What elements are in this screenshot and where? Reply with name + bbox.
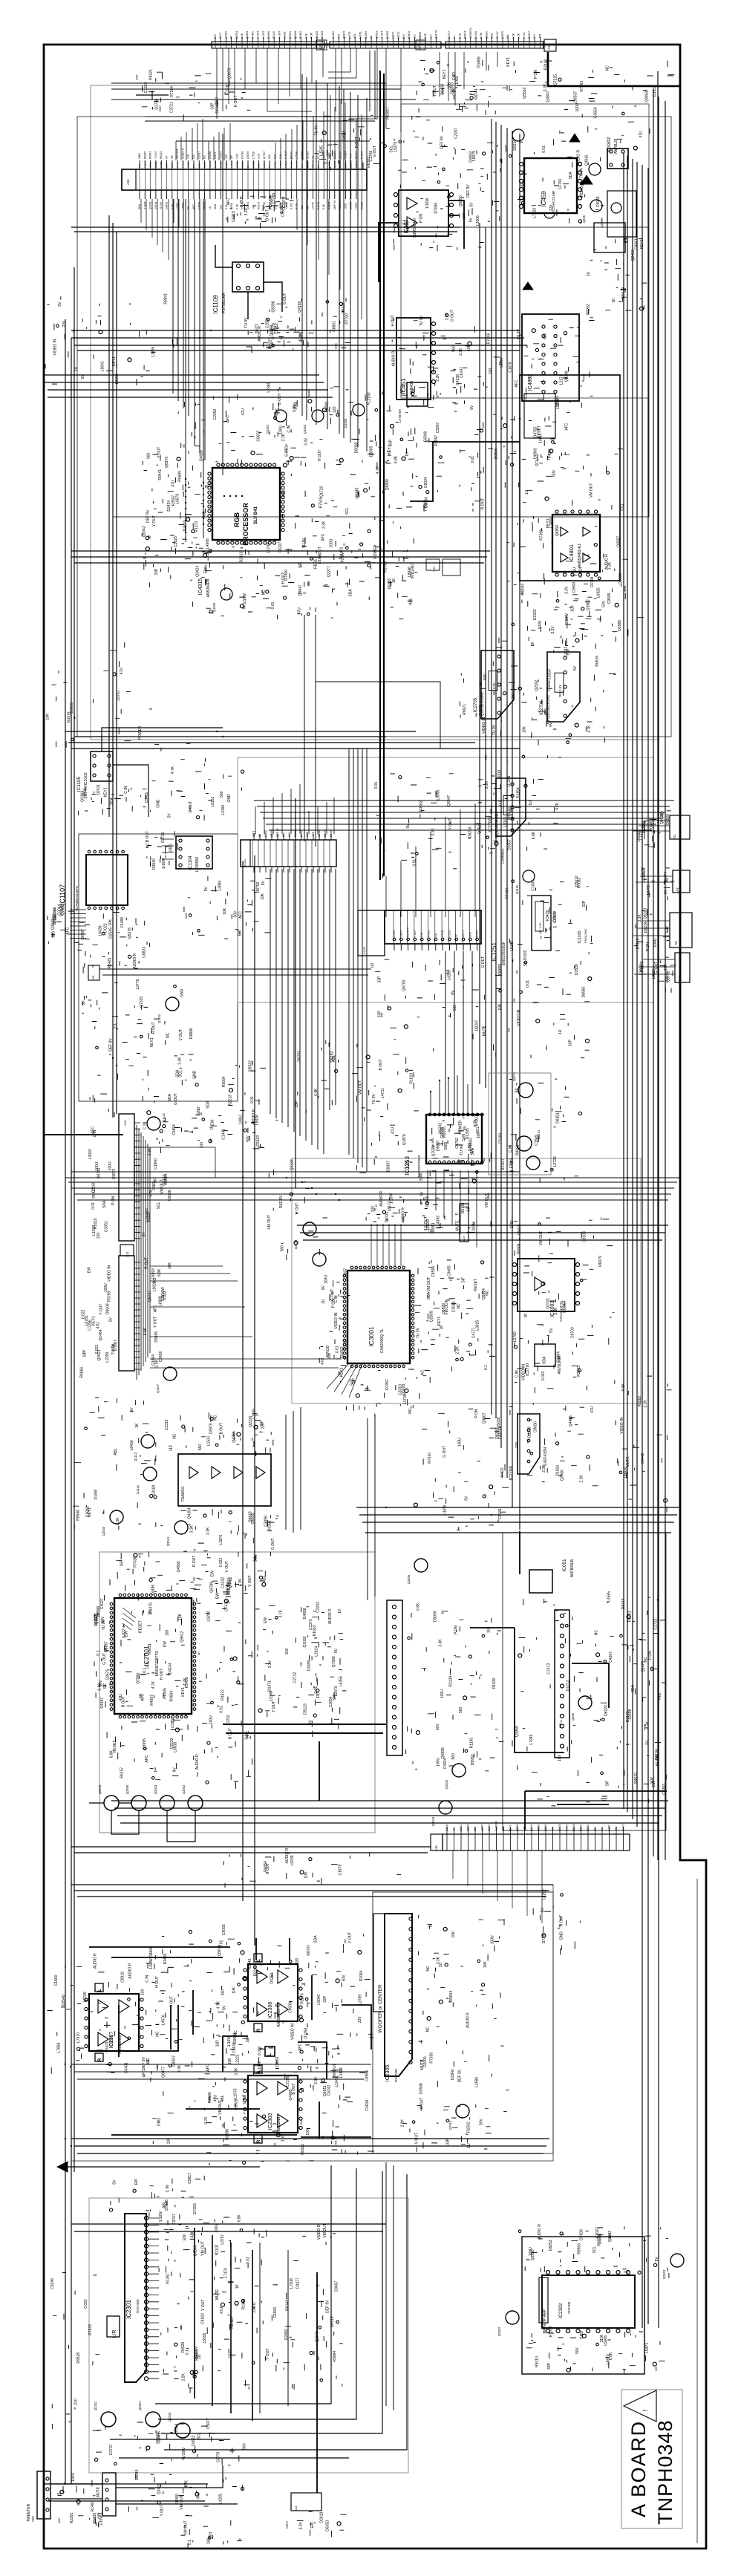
svg-text:0.01: 0.01: [219, 1706, 223, 1713]
svg-text:1U: 1U: [558, 1029, 563, 1034]
IC2307 pins right: [140, 1998, 143, 2001]
svg-text:SIF: SIF: [467, 1206, 471, 1212]
svg-text:0.01: 0.01: [374, 781, 379, 789]
svg-text:D7328: D7328: [165, 2200, 169, 2211]
svg-text:L7858: L7858: [57, 2042, 62, 2052]
svg-text:D5127: D5127: [342, 302, 346, 313]
svg-text:D3525: D3525: [393, 930, 396, 937]
IC1253 pins bottom: [428, 1161, 431, 1164]
svg-text:47U: 47U: [214, 2095, 218, 2102]
svg-text:A3: A3: [319, 45, 322, 50]
IC1105 body: [91, 751, 113, 781]
svg-text:Y OUT: Y OUT: [272, 1701, 276, 1712]
svg-text:KEY1: KEY1: [437, 1317, 442, 1326]
svg-text:D7066: D7066: [434, 203, 439, 214]
Q1107 transistor: [163, 1367, 177, 1380]
svg-text:2.2K: 2.2K: [258, 153, 261, 159]
svg-text:D3490: D3490: [307, 1660, 311, 1671]
components below IC2302: [526, 2332, 665, 2375]
components below IC1104 and A1101: [184, 876, 271, 939]
svg-text:C3765: C3765: [272, 193, 276, 204]
small cluster right of woofer section top: [533, 1905, 580, 1955]
components right of RGB processor: [283, 457, 414, 589]
svg-text:Q7225: Q7225: [553, 74, 558, 85]
svg-text:Q2302: Q2302: [497, 2326, 501, 2336]
svg-text:47U: 47U: [391, 1127, 395, 1135]
IC2001 pins top: [119, 1594, 122, 1597]
svg-text:H OUT: H OUT: [266, 1863, 270, 1875]
wire bus: tuner to IC1253 verticals: [445, 951, 472, 1115]
svg-text:NC: NC: [594, 1827, 597, 1831]
dense column right of micom x418-462: [310, 1611, 347, 1737]
svg-text:D5748: D5748: [461, 1202, 466, 1213]
svg-text:IC4802: IC4802: [528, 374, 533, 391]
svg-text:L4966: L4966: [206, 538, 210, 549]
svg-text:C7296: C7296: [286, 2076, 290, 2087]
wire bus: horizontals from A1101 to right side: [254, 800, 674, 830]
svg-text:D3940: D3940: [152, 858, 157, 870]
svg-text:EW: EW: [204, 567, 209, 573]
svg-text:L: L: [98, 1989, 102, 1992]
connector A11 body: [119, 1256, 134, 1371]
svg-text:0.022: 0.022: [258, 2046, 262, 2055]
svg-text:VIDEO IN: VIDEO IN: [291, 2024, 296, 2040]
svg-text:PROCESSOR: PROCESSOR: [242, 503, 249, 546]
svg-text:D1528: D1528: [241, 151, 244, 159]
svg-text:H OUT: H OUT: [155, 1976, 160, 1988]
svg-text:SDA: SDA: [542, 1356, 546, 1364]
wire bus: horizontals y1300 under A4: [99, 969, 371, 975]
svg-text:TU 9V: TU 9V: [420, 315, 424, 326]
svg-text:R7515: R7515: [319, 497, 324, 508]
svg-text:D1236: D1236: [474, 31, 477, 39]
svg-text:VM OUT: VM OUT: [333, 2064, 337, 2078]
svg-text:R8492: R8492: [299, 31, 302, 39]
components below IC2001: [107, 1719, 252, 1789]
svg-text:D5882: D5882: [467, 1824, 470, 1831]
svg-text:50V: 50V: [234, 910, 238, 918]
svg-text:L4393: L4393: [437, 1216, 441, 1226]
svg-text:L3506: L3506: [476, 215, 480, 226]
svg-text:L6838: L6838: [174, 1742, 178, 1752]
svg-text:D7393: D7393: [193, 2203, 198, 2214]
svg-text:R9338: R9338: [386, 31, 389, 39]
Q2308 switch block body: [607, 191, 636, 237]
svg-text:SIF: SIF: [246, 2037, 250, 2043]
svg-text:2.2K: 2.2K: [182, 2373, 186, 2381]
svg-text:R3805: R3805: [408, 31, 411, 39]
svg-text:Q1662: Q1662: [340, 1346, 345, 1357]
wire bus: mid band y1900-2000 verticals: [286, 1407, 375, 1600]
svg-text:L3050: L3050: [548, 669, 552, 679]
svg-text:R1582: R1582: [538, 1824, 541, 1831]
svg-text:C3140: C3140: [441, 930, 444, 937]
svg-text:P ON: P ON: [420, 214, 424, 224]
svg-text:3.3K: 3.3K: [543, 83, 548, 91]
svg-text:D2411: D2411: [97, 784, 101, 795]
svg-text:1K: 1K: [440, 1325, 444, 1330]
svg-text:33P: 33P: [210, 102, 215, 110]
svg-text:Q8999: Q8999: [618, 573, 623, 584]
svg-text:3.3K: 3.3K: [344, 163, 347, 168]
svg-text:560: 560: [220, 791, 224, 798]
Q3132b transistor: [526, 1156, 540, 1170]
svg-text:P ON: P ON: [474, 1409, 479, 1418]
svg-text:100U: 100U: [209, 1715, 214, 1724]
svg-text:EW: EW: [210, 1571, 215, 1576]
svg-text:Q1982: Q1982: [608, 2231, 613, 2242]
svg-text:C1077: C1077: [206, 2418, 211, 2429]
svg-text:10K: 10K: [434, 932, 437, 937]
svg-text:GND: GND: [491, 33, 494, 39]
components above IC2001: [105, 1551, 266, 1600]
svg-text:MC 3.3V: MC 3.3V: [538, 922, 542, 934]
svg-text:TU 9V: TU 9V: [492, 724, 497, 735]
svg-text:D4254: D4254: [270, 1973, 275, 1984]
svg-text:D8353: D8353: [326, 2520, 330, 2531]
components in sound IF section: [512, 1597, 666, 1806]
svg-text:AFC: AFC: [226, 198, 231, 205]
svg-text:3.3V: 3.3V: [304, 437, 309, 446]
svg-text:560: 560: [474, 1827, 477, 1831]
svg-text:R6663: R6663: [149, 151, 152, 159]
svg-text:V OUT: V OUT: [344, 150, 347, 159]
components left of RGB processor: [142, 446, 212, 587]
svg-text:C9731: C9731: [161, 832, 166, 843]
svg-text:5V: 5V: [108, 1317, 113, 1322]
svg-text:C2157: C2157: [454, 128, 459, 139]
svg-text:Q8398: Q8398: [272, 301, 276, 312]
svg-text:B OUT: B OUT: [146, 831, 150, 842]
svg-text:R8081: R8081: [515, 1144, 520, 1155]
svg-text:R7490: R7490: [251, 31, 254, 39]
svg-text:V OUT: V OUT: [225, 1561, 229, 1572]
svg-text:C8575: C8575: [106, 1669, 111, 1680]
svg-text:R6540: R6540: [426, 1219, 431, 1230]
components around IC4802: [486, 319, 595, 420]
svg-text:L/R: L/R: [112, 2330, 117, 2338]
svg-text:Y OUT: Y OUT: [433, 85, 437, 97]
svg-text:C4303: C4303: [662, 1784, 667, 1795]
svg-text:0.01: 0.01: [247, 2257, 251, 2264]
svg-text:5V: 5V: [469, 218, 473, 223]
svg-text:9V: 9V: [470, 405, 474, 410]
svg-text:C9395: C9395: [448, 930, 451, 937]
svg-text:Q6485: Q6485: [209, 151, 212, 159]
svg-text:C7027: C7027: [220, 161, 223, 168]
svg-text:10K: 10K: [223, 907, 227, 915]
svg-text:C1723: C1723: [653, 1619, 658, 1630]
svg-text:1K: 1K: [153, 1178, 157, 1183]
svg-text:Q1107: Q1107: [156, 1383, 160, 1393]
svg-text:Q1880: Q1880: [333, 161, 336, 168]
svg-text:L3003: L3003: [88, 1149, 93, 1159]
svg-text:D9375: D9375: [148, 1602, 153, 1614]
svg-text:C9093: C9093: [222, 1924, 226, 1935]
svg-text:R4519: R4519: [68, 711, 72, 723]
svg-text:L3757: L3757: [221, 2234, 225, 2244]
wire junction dots scattered on buses: [242, 1177, 244, 1178]
svg-text:3.3K: 3.3K: [190, 1525, 195, 1533]
svg-text:SIF: SIF: [230, 155, 233, 159]
Q3132 transistors: [303, 1222, 316, 1236]
svg-text:Q7696: Q7696: [332, 1656, 336, 1667]
regulator IC2705 body: [481, 650, 514, 719]
svg-text:6.8K: 6.8K: [238, 2214, 242, 2222]
svg-text:4.7K: 4.7K: [111, 1343, 116, 1351]
svg-text:NC: NC: [606, 65, 610, 71]
svg-text:AN7108: AN7108: [567, 2301, 571, 2314]
svg-text:R7833: R7833: [88, 2324, 93, 2335]
svg-text:1/16W: 1/16W: [565, 613, 569, 625]
svg-text:D5123: D5123: [303, 1703, 307, 1715]
connector A4 small box: [88, 965, 99, 980]
svg-text:C1878: C1878: [338, 1865, 342, 1876]
svg-text:R1358: R1358: [242, 2298, 247, 2309]
svg-text:R1373: R1373: [195, 521, 199, 532]
svg-text:AFC: AFC: [192, 204, 195, 209]
Q2303 transistor: [670, 2254, 684, 2267]
svg-text:B OUT: B OUT: [475, 1115, 480, 1126]
IC2001 fan wires top-left: [123, 1608, 136, 1630]
wire risers from comb to top-left nets: [176, 119, 230, 160]
svg-text:100U: 100U: [458, 1438, 463, 1447]
svg-text:R7019: R7019: [274, 161, 277, 168]
Q052 transistor: [578, 1696, 592, 1709]
svg-text:100U: 100U: [329, 538, 333, 547]
svg-text:2.2K: 2.2K: [523, 1825, 526, 1831]
svg-text:C2243: C2243: [316, 1602, 321, 1613]
capacitor C1324 near top-left: [136, 91, 169, 100]
svg-text:C8782: C8782: [235, 161, 238, 168]
svg-text:220: 220: [549, 205, 554, 212]
svg-text:C IN: C IN: [509, 1145, 513, 1152]
svg-text:1/16W: 1/16W: [99, 2515, 103, 2526]
svg-text:Q6991: Q6991: [241, 161, 244, 168]
U2 RGB switch body: [178, 1454, 271, 1506]
svg-text:1U: 1U: [405, 451, 410, 457]
svg-text:560: 560: [459, 1706, 463, 1713]
svg-text:C8699: C8699: [294, 829, 297, 837]
svg-text:Q461: Q461: [581, 178, 584, 186]
svg-text:L4959: L4959: [160, 161, 163, 168]
svg-text:R6079: R6079: [598, 1256, 603, 1267]
svg-text:Q3284: Q3284: [232, 1431, 237, 1442]
components below U2: [180, 1509, 279, 1556]
svg-text:L5426: L5426: [255, 1115, 259, 1125]
svg-text:D2424: D2424: [167, 500, 172, 512]
svg-text:VIDEO IN: VIDEO IN: [620, 1417, 624, 1433]
svg-text:C1804: C1804: [556, 1351, 561, 1363]
svg-text:Q2277: Q2277: [327, 566, 331, 577]
wire drops below comb right: [297, 199, 362, 319]
svg-text:6.8K: 6.8K: [424, 33, 427, 39]
svg-text:1/16W: 1/16W: [162, 858, 166, 869]
svg-text:NC: NC: [457, 1303, 461, 1309]
IC501 audio switch body: [399, 190, 448, 236]
svg-text:100: 100: [306, 2129, 310, 2136]
svg-text:C2069: C2069: [342, 131, 347, 142]
svg-text:D7632: D7632: [183, 520, 188, 531]
svg-text:AN7805LB: AN7805LB: [570, 1559, 575, 1577]
svg-text:Q7858: Q7858: [61, 904, 65, 915]
svg-text:U1: U1: [252, 830, 257, 835]
svg-text:Q487: Q487: [504, 144, 508, 152]
svg-text:D2540: D2540: [62, 1995, 66, 2006]
svg-text:Q5510: Q5510: [523, 87, 527, 98]
connector K1 right edge: [670, 815, 690, 839]
svg-text:L5760: L5760: [513, 1331, 518, 1342]
svg-text:0.022: 0.022: [290, 203, 293, 209]
svg-text:L9037: L9037: [355, 202, 358, 209]
svg-text:220: 220: [515, 1441, 520, 1448]
svg-text:H OUT: H OUT: [281, 573, 286, 584]
svg-text:2.2K: 2.2K: [644, 1400, 648, 1408]
IC2303 pins right: [299, 2080, 302, 2083]
IC2301 pin circles: [145, 2217, 148, 2220]
svg-text:L8151: L8151: [211, 796, 215, 806]
svg-text:D5908: D5908: [517, 1243, 521, 1254]
svg-text:0.1: 0.1: [268, 164, 271, 168]
svg-text:ABL: ABL: [221, 2095, 225, 2102]
svg-text:Y OUT: Y OUT: [99, 1304, 103, 1315]
svg-text:TWEETER: TWEETER: [27, 2503, 31, 2522]
svg-text:R6233: R6233: [160, 151, 163, 159]
svg-text:47U: 47U: [353, 33, 356, 39]
section boundary box: headphone amp section: [522, 2237, 644, 2374]
svg-text:KEY1: KEY1: [112, 356, 117, 366]
svg-text:IC270G: IC270G: [489, 817, 493, 832]
svg-text:C4924: C4924: [443, 1758, 448, 1769]
svg-text:TU 9V: TU 9V: [160, 201, 163, 209]
svg-text:D2838: D2838: [572, 1824, 575, 1831]
components around Q2308: [589, 239, 647, 318]
svg-text:AN5394FB: AN5394FB: [206, 578, 211, 597]
svg-text:C2436: C2436: [159, 1351, 163, 1362]
svg-text:3.3V: 3.3V: [565, 586, 569, 594]
svg-text:P ON: P ON: [646, 942, 650, 952]
svg-text:D9537: D9537: [574, 91, 578, 102]
svg-text:3.3V: 3.3V: [206, 550, 210, 558]
svg-text:50V: 50V: [274, 154, 277, 159]
IC001 vertical SIL body: [387, 1600, 402, 1755]
connector A1 pin dividers: [449, 42, 540, 48]
svg-text:3.3K: 3.3K: [155, 1360, 160, 1368]
wire bus: right margin verticals: [624, 71, 665, 2328]
svg-text:47U: 47U: [321, 1357, 325, 1365]
svg-text:AUDIO R: AUDIO R: [328, 1608, 333, 1624]
connector A11 pins: [134, 1262, 140, 1369]
svg-text:4.7K: 4.7K: [555, 802, 560, 810]
connector A05 body: [102, 2473, 116, 2516]
svg-text:10K: 10K: [664, 964, 668, 971]
components around IC1253: [491, 1079, 578, 1183]
svg-text:IC051: IC051: [562, 1559, 567, 1572]
Q2302 transistor: [506, 2311, 519, 2324]
svg-text:H OUT: H OUT: [391, 315, 395, 327]
svg-text:G OUT: G OUT: [443, 1446, 447, 1458]
svg-text:2.2K: 2.2K: [502, 1825, 505, 1831]
svg-text:ABL: ABL: [658, 1692, 662, 1700]
svg-text:220: 220: [97, 1232, 101, 1239]
components y1000-1100 mid left: [150, 743, 241, 821]
svg-text:D1228: D1228: [528, 1426, 532, 1438]
svg-text:L2586: L2586: [474, 2077, 479, 2087]
svg-text:Q2320: Q2320: [168, 2412, 172, 2422]
svg-text:MN1873287TD: MN1873287TD: [155, 1651, 160, 1676]
svg-text:Q6083: Q6083: [324, 829, 327, 837]
svg-text:D5192: D5192: [330, 1051, 335, 1063]
svg-text:R4116: R4116: [272, 31, 275, 39]
svg-text:G OUT: G OUT: [189, 801, 193, 813]
svg-text:A BOARD: A BOARD: [627, 2420, 650, 2517]
svg-text:5V: 5V: [258, 833, 261, 837]
svg-text:Q1882: Q1882: [587, 599, 591, 610]
svg-text:H OUT: H OUT: [318, 450, 322, 462]
svg-text:Y OUT: Y OUT: [152, 515, 157, 526]
section boundary box: main audio output section: [89, 2198, 408, 2473]
wire bus: horizontals below comb section: [71, 330, 527, 350]
svg-text:0.1: 0.1: [185, 2350, 189, 2355]
svg-text:V OUT: V OUT: [279, 161, 282, 168]
connector A15 pins: [134, 1123, 140, 1239]
svg-text:A6: A6: [674, 941, 678, 945]
wire bus: bottom nested L-trunks: [155, 2165, 407, 2450]
svg-text:B OUT: B OUT: [266, 209, 270, 221]
svg-text:1/16W: 1/16W: [227, 2036, 232, 2047]
svg-text:L2171: L2171: [559, 374, 564, 385]
svg-text:R2102: R2102: [215, 2244, 219, 2255]
svg-text:R9963: R9963: [577, 2243, 581, 2254]
svg-text:D6851: D6851: [555, 1112, 560, 1124]
svg-text:560: 560: [242, 2443, 247, 2450]
svg-text:RESET: RESET: [474, 1279, 478, 1291]
svg-text:100: 100: [489, 368, 493, 375]
svg-text:Q9557: Q9557: [617, 535, 621, 547]
connector A3 designator box: [316, 40, 327, 50]
svg-text:50V: 50V: [480, 2119, 484, 2126]
svg-text:Y OUT: Y OUT: [266, 2348, 270, 2359]
IC459 pins left: [520, 163, 523, 166]
svg-text:Q2005: Q2005: [98, 1784, 102, 1794]
components around IC2306: [206, 1939, 345, 2053]
svg-text:D1409: D1409: [440, 84, 445, 95]
svg-text:C3625: C3625: [174, 536, 178, 547]
svg-text:6.8K: 6.8K: [532, 831, 536, 839]
svg-text:TU 9V: TU 9V: [580, 167, 584, 178]
svg-text:C7324: C7324: [579, 567, 584, 578]
svg-text:50V: 50V: [402, 33, 405, 39]
svg-text:SDA: SDA: [313, 1935, 318, 1943]
section boundary box: sound IF IC051 section: [503, 1533, 666, 1830]
component cluster top right of comb: [417, 60, 552, 115]
svg-text:33P: 33P: [378, 1011, 382, 1018]
svg-text:D9009: D9009: [106, 1303, 111, 1314]
svg-text:Q5264: Q5264: [270, 829, 273, 837]
svg-text:50V: 50V: [602, 600, 607, 607]
svg-text:1U: 1U: [453, 1827, 456, 1831]
svg-text:10K: 10K: [467, 344, 471, 351]
svg-text:IC1251: IC1251: [491, 942, 497, 962]
svg-text:4.7K: 4.7K: [216, 2001, 221, 2009]
components below RGB processor: [192, 547, 417, 620]
svg-text:C3513: C3513: [452, 1301, 457, 1312]
svg-text:4.7K: 4.7K: [376, 466, 380, 474]
svg-text:H OUT: H OUT: [240, 196, 244, 208]
svg-text:4.7K: 4.7K: [312, 831, 315, 837]
svg-text:100: 100: [281, 2135, 285, 2142]
svg-text:L3221: L3221: [235, 2054, 240, 2064]
